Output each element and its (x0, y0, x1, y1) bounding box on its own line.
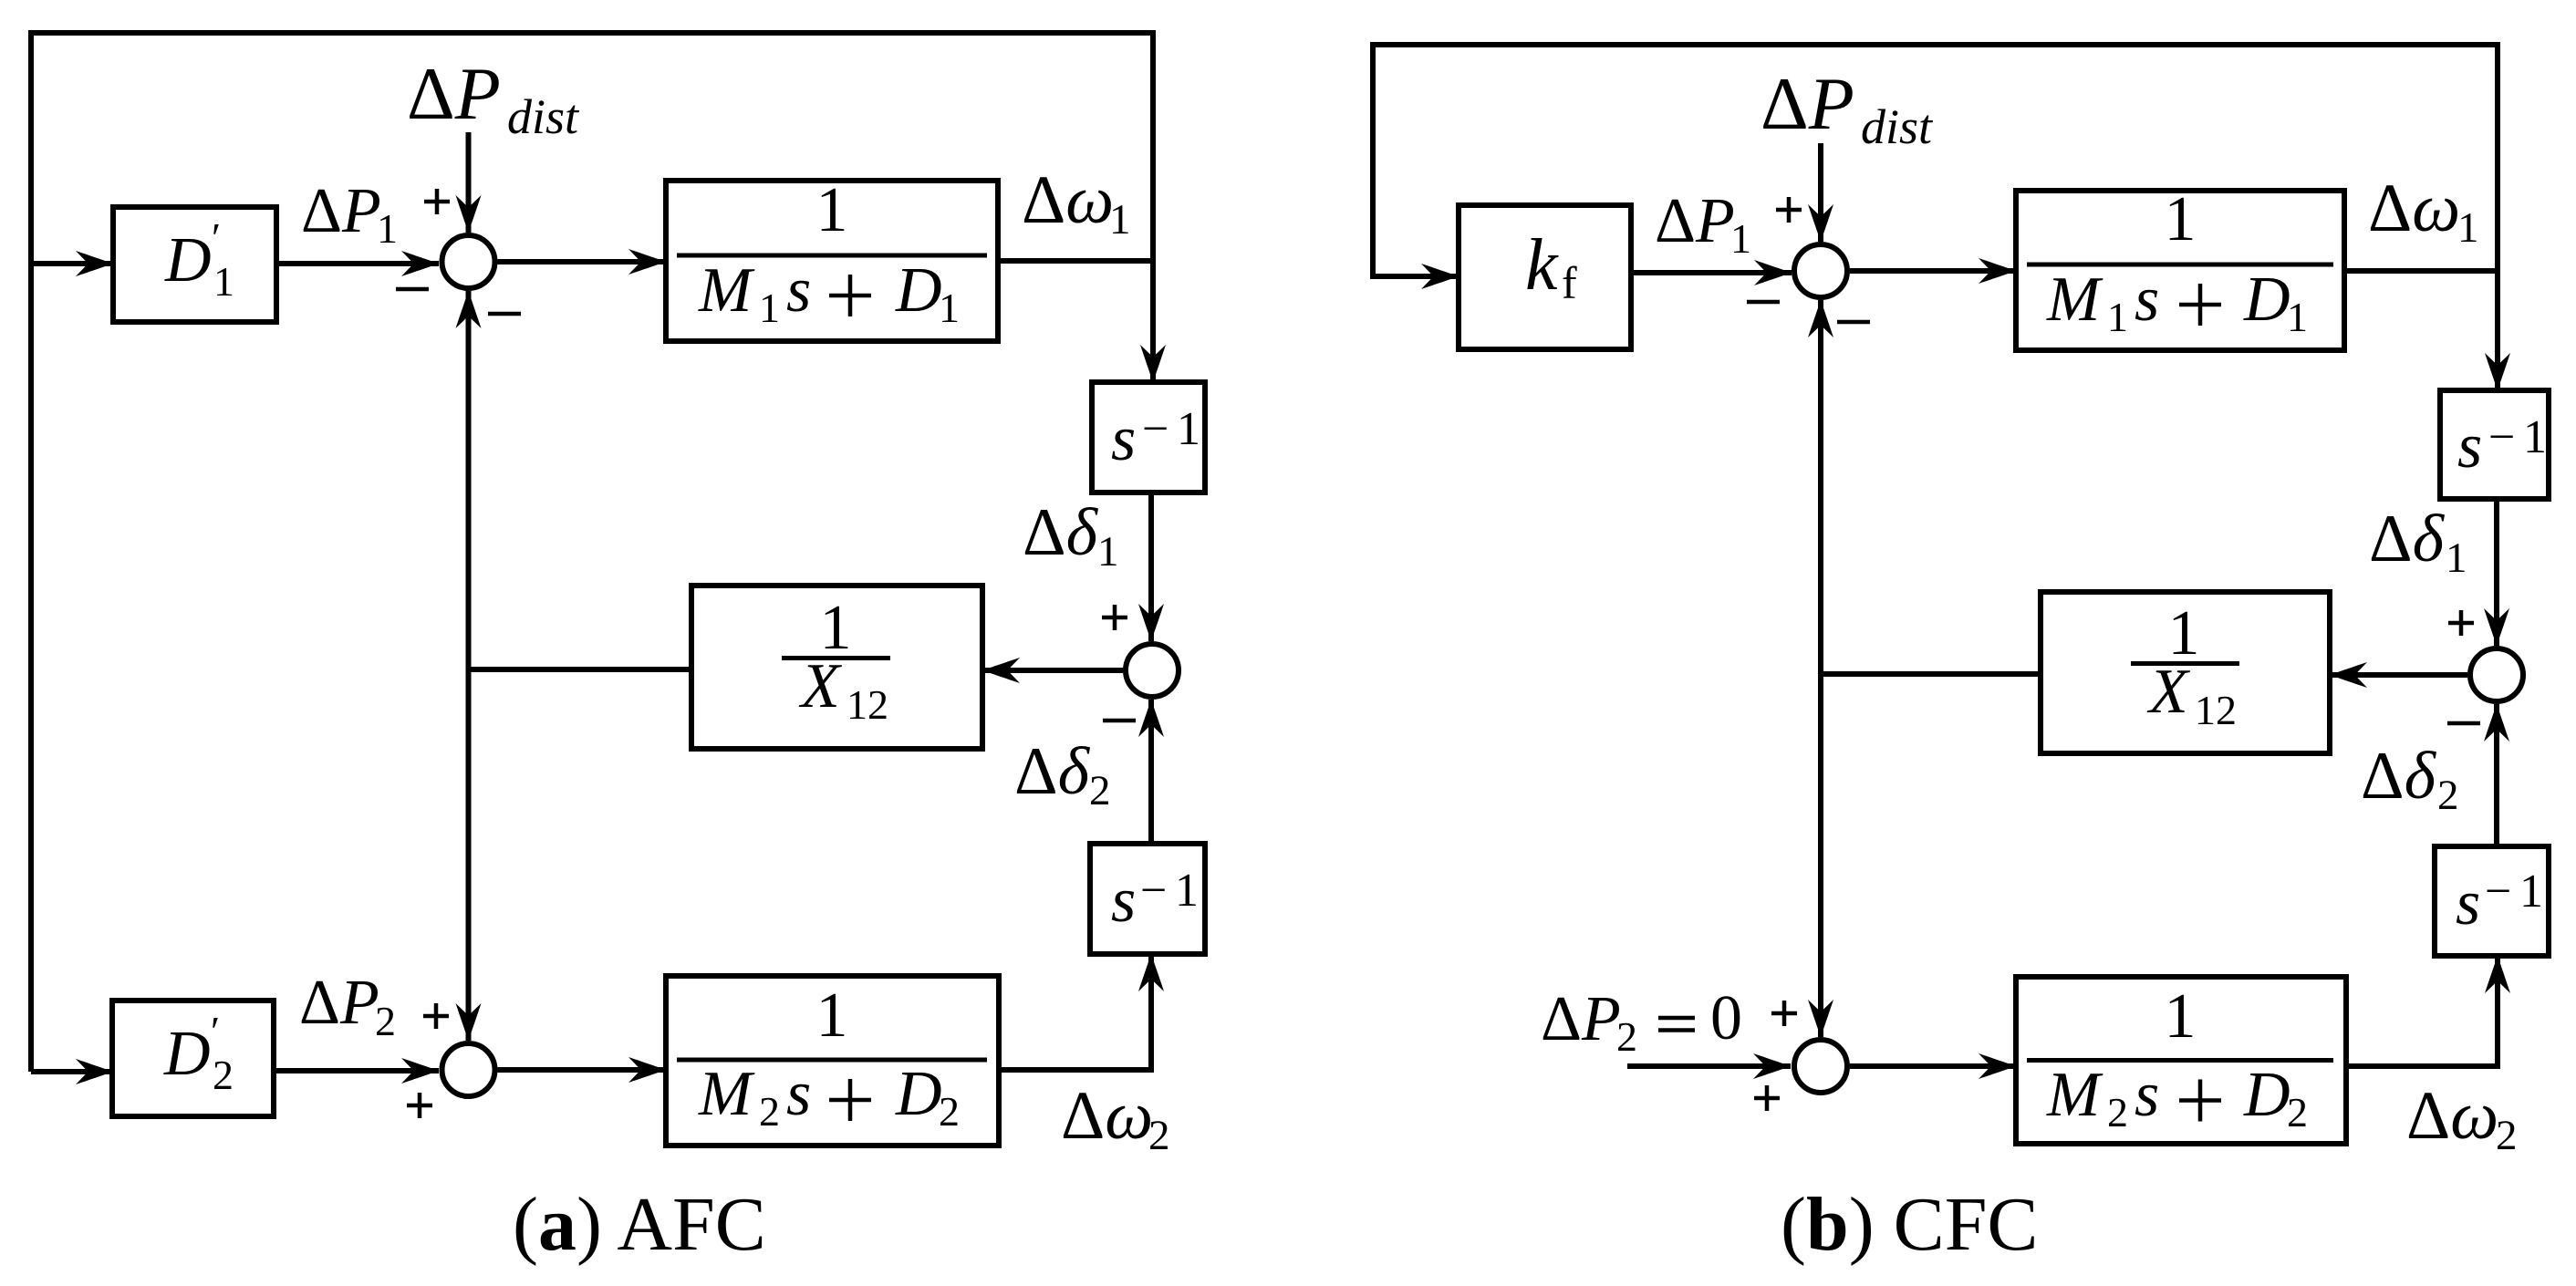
svg-text:1: 1 (816, 175, 848, 245)
svg-text:′: ′ (212, 214, 221, 261)
block 1/(M1s+D1) (666, 175, 998, 341)
wire M1b output to node W1b (2344, 268, 2498, 274)
wire dPdist into sum S1a (466, 132, 472, 233)
svg-text:ΔP: ΔP (301, 176, 381, 246)
svg-text:Δω: Δω (2368, 171, 2460, 246)
svg-text:1: 1 (1097, 528, 1119, 576)
block s^-1 B1 (2440, 390, 2549, 499)
summing junction S3b (1794, 1040, 1847, 1093)
svg-text:M: M (698, 1059, 755, 1129)
svg-text:dist: dist (1861, 99, 1934, 154)
wire outer feedback loop B (1373, 45, 2498, 276)
svg-text:2: 2 (2287, 1089, 2308, 1136)
svg-text:1: 1 (377, 205, 398, 252)
svg-text:2: 2 (2437, 772, 2459, 819)
plus sign at S3b left lower (1754, 1085, 1780, 1111)
svg-text:X: X (798, 651, 843, 721)
wire S2a to block X12a (982, 668, 1123, 673)
summing junction S2a (1126, 644, 1179, 697)
node label dPdist b (1761, 62, 1934, 154)
node label dd1 (1023, 495, 1119, 576)
wire S3a to block M2a (498, 1067, 667, 1073)
wire feedback branch into D'1 (31, 261, 113, 266)
block 1/X12 (691, 586, 982, 749)
svg-text:1: 1 (2523, 411, 2547, 463)
svg-text:−: − (1140, 865, 1167, 917)
minus sign at S1a left lower (396, 287, 429, 292)
svg-text:s: s (2135, 1060, 2159, 1130)
svg-text:2: 2 (939, 1088, 960, 1135)
plus sign at S3a left lower (407, 1093, 432, 1118)
svg-text:1: 1 (1175, 865, 1199, 917)
svg-text:1: 1 (2446, 534, 2467, 582)
svg-text:2: 2 (2496, 1112, 2518, 1159)
svg-text:1: 1 (759, 285, 780, 331)
summing junction S3a (442, 1043, 495, 1096)
svg-text:1: 1 (816, 980, 848, 1051)
svg-text:1: 1 (939, 285, 960, 331)
svg-text:(b) CFC: (b) CFC (1781, 1182, 2038, 1267)
node label dP1 (301, 176, 398, 252)
wire D'1 to sum S1a, signal dP1 (276, 261, 439, 266)
wire junction up into S1b bottom (minus) (1818, 300, 1823, 674)
svg-text:(a) AFC: (a) AFC (513, 1182, 766, 1267)
svg-text:D: D (2243, 1060, 2290, 1130)
wire B1 to sum S2b, signal dd1 (2494, 499, 2499, 646)
wire kf to sum S1b, signal dP1 (1631, 270, 1792, 275)
svg-text:1: 1 (2165, 981, 2197, 1052)
svg-text:1: 1 (2287, 294, 2308, 340)
wire M1a output to node W1a (998, 258, 1153, 264)
svg-text:1: 1 (2519, 866, 2543, 918)
wire M2b output up into integrator B2, signal dw2 (2346, 956, 2498, 1066)
block D'1 (113, 207, 276, 322)
plus sign at S2b top input (2448, 610, 2474, 636)
svg-text:s: s (2457, 411, 2482, 482)
svg-text:M: M (698, 255, 755, 326)
wire node W1a down into integrator A1 (1150, 261, 1156, 382)
svg-text:−: − (2488, 411, 2515, 463)
wire outer feedback loop A: from node W1a up, across top, down left side (31, 33, 1153, 1072)
svg-text:2: 2 (1148, 1112, 1170, 1159)
svg-text:D: D (2243, 264, 2290, 335)
svg-text:2: 2 (375, 998, 396, 1044)
node label dw2 (1061, 1078, 1170, 1159)
wire S1a to block M1a (498, 259, 667, 264)
summing junction S2b (2470, 648, 2523, 701)
svg-text:12: 12 (847, 681, 888, 728)
svg-text:dist: dist (507, 89, 580, 144)
svg-text:D: D (895, 255, 942, 326)
minus sign at S2a bottom input (1103, 719, 1136, 723)
plus sign at S3b top input (1771, 1001, 1797, 1026)
block 1/X12 b (2041, 592, 2330, 753)
wire D'2 to sum S3a, signal dP2 (274, 1068, 439, 1073)
svg-text:12: 12 (2195, 687, 2237, 733)
plus sign at S3a top input (423, 1003, 449, 1029)
wire junction down into S3a top (plus) (466, 669, 472, 1041)
block s^-1 A2 (1090, 844, 1205, 954)
svg-text:ΔP: ΔP (407, 52, 501, 135)
block s^-1 B2 (2435, 846, 2549, 956)
minus sign at S1b bottom input (1837, 320, 1870, 325)
minus sign at S2b bottom input (2447, 721, 2480, 726)
node label dP2 = 0 (1541, 983, 1742, 1060)
plus sign at S2a top input (1102, 605, 1127, 630)
svg-text:Δδ: Δδ (2369, 502, 2446, 576)
svg-text:Δδ: Δδ (1023, 495, 1099, 570)
svg-text:f: f (1562, 257, 1577, 308)
minus sign at S1a bottom input (488, 312, 521, 316)
caption (a) AFC (513, 1182, 766, 1267)
wire junction up into S1a bottom (minus) (466, 291, 472, 669)
svg-text:Δω: Δω (1022, 162, 1114, 238)
svg-text:−: − (1142, 403, 1169, 455)
svg-text:s: s (1111, 866, 1136, 936)
wire S1b to block M1b (1850, 268, 2016, 274)
svg-text:1: 1 (2165, 184, 2197, 254)
node label dd2 b (2361, 739, 2459, 819)
svg-text:ΔP: ΔP (299, 968, 379, 1038)
svg-text:D: D (895, 1059, 942, 1129)
svg-text:k: k (1525, 225, 1559, 306)
svg-text:Δδ: Δδ (1014, 734, 1091, 809)
svg-text:1: 1 (1730, 215, 1751, 262)
wire dPdist into sum S1b (1818, 143, 1823, 242)
svg-text:Δω: Δω (2406, 1078, 2498, 1154)
wire X12b output to tie line junction b (1821, 671, 2041, 677)
svg-text:ΔP: ΔP (1655, 186, 1735, 256)
node label dw1 (1022, 162, 1131, 244)
svg-text:−: − (2485, 866, 2511, 918)
wire S2b to block X12b (2330, 672, 2467, 678)
block D'2 (112, 1001, 274, 1116)
svg-text:2: 2 (213, 1052, 234, 1098)
svg-text:1: 1 (213, 258, 234, 305)
svg-text:2: 2 (1089, 767, 1111, 814)
wire A1 to sum S2a, signal dd1 (1148, 493, 1154, 641)
wire B2 up to S2b bottom (minus), signal dd2 (2494, 704, 2499, 846)
caption (b) CFC (1781, 1182, 2038, 1267)
svg-text:1: 1 (1177, 403, 1200, 455)
wire dP2 into sum S3b (1627, 1063, 1791, 1069)
svg-text:1: 1 (2107, 294, 2128, 340)
svg-text:s: s (786, 255, 811, 326)
block s^-1 A1 (1092, 382, 1205, 493)
wire S3b to block M2b (1850, 1063, 2016, 1069)
svg-text:s: s (786, 1059, 811, 1129)
wire node W1b down into integrator B1 (2495, 271, 2500, 390)
plus sign at S1a top input (424, 189, 450, 214)
node label dd1 b (2369, 502, 2467, 582)
summing junction S1b (1794, 244, 1847, 297)
svg-text:s: s (2135, 264, 2159, 335)
svg-text:D: D (164, 225, 212, 296)
wire X12a output to tie line junction (469, 667, 692, 672)
node label dw2 b (2406, 1078, 2518, 1159)
block 1/(M2s+D2) (666, 976, 999, 1146)
node label dP2 (299, 968, 396, 1044)
svg-text:2: 2 (2107, 1089, 2128, 1136)
svg-text:1: 1 (2457, 204, 2479, 252)
svg-text:2: 2 (759, 1088, 780, 1135)
block 1/(M2s+D2) b (2016, 977, 2346, 1144)
svg-text:′: ′ (211, 1008, 220, 1054)
wire M2a output up into integrator A2, signal dw2 (999, 954, 1151, 1070)
svg-text:0: 0 (1710, 983, 1742, 1053)
node label dP1 b (1655, 186, 1751, 262)
svg-text:2: 2 (1616, 1013, 1637, 1060)
svg-text:M: M (2046, 1060, 2103, 1130)
svg-text:ΔP: ΔP (1761, 62, 1854, 145)
svg-text:X: X (2146, 657, 2191, 727)
wire junction down into S3b top (plus) (1818, 674, 1823, 1037)
block 1/(M1s+D1) b (2016, 184, 2344, 350)
svg-text:1: 1 (1109, 196, 1131, 244)
svg-text:s: s (2456, 868, 2480, 939)
node label dw1 b (2368, 171, 2479, 252)
wire A2 up to S2a bottom (minus), signal dd2 (1148, 700, 1154, 844)
node label dd2 (1014, 734, 1111, 814)
svg-text:M: M (2046, 264, 2103, 335)
block kf (1459, 205, 1631, 349)
node label dPdist (407, 52, 580, 144)
svg-text:Δδ: Δδ (2361, 739, 2437, 814)
svg-text:D: D (163, 1019, 211, 1089)
summing junction S1a (442, 235, 495, 288)
svg-text:Δω: Δω (1061, 1078, 1153, 1154)
plus sign at S1b top input (1776, 197, 1802, 223)
svg-text:ΔP: ΔP (1541, 984, 1621, 1054)
minus sign at S1b left lower (1747, 300, 1780, 305)
svg-text:s: s (1111, 404, 1136, 474)
wire feedback corner into D'2 (31, 1069, 113, 1074)
